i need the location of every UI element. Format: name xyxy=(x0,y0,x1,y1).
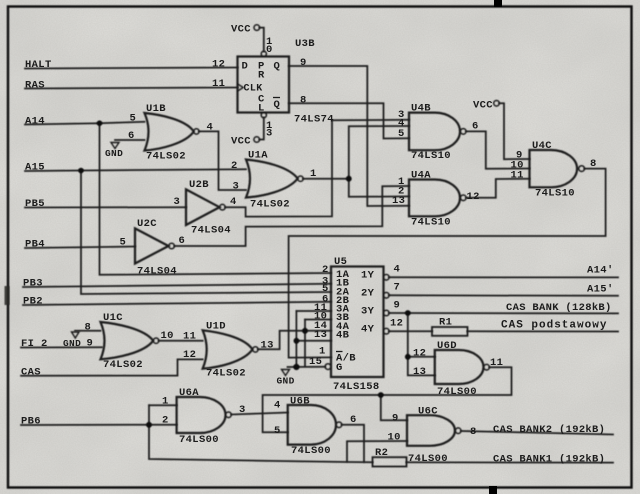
svg-text:CAS: CAS xyxy=(21,367,41,379)
svg-text:U4C: U4C xyxy=(532,140,552,152)
wire A14 to U1B pin 5 xyxy=(25,122,145,125)
wire PB3 to U5 1B xyxy=(23,284,331,287)
NOR gate U1C body xyxy=(101,322,154,359)
svg-text:74LS10: 74LS10 xyxy=(411,150,451,162)
svg-text:3: 3 xyxy=(266,128,273,140)
junction return rail to U6C pin 9 xyxy=(378,392,384,398)
svg-text:74LS04: 74LS04 xyxy=(137,266,177,278)
wire A14 branch to U5 1A xyxy=(100,123,332,275)
svg-text:74LS00: 74LS00 xyxy=(179,434,219,446)
wire U4A out to U4C pin 11 xyxy=(466,179,529,198)
svg-text:3Y: 3Y xyxy=(361,305,375,317)
junction U5 4B tie node xyxy=(294,338,300,344)
svg-text:GND: GND xyxy=(63,338,81,349)
wire PB5 to U2B pin 3 xyxy=(25,206,186,208)
registration tick top xyxy=(494,0,502,7)
svg-text:5: 5 xyxy=(120,237,127,249)
svg-text:11: 11 xyxy=(511,170,524,182)
svg-text:U1B: U1B xyxy=(146,103,166,115)
junction U5 4A node xyxy=(302,328,308,334)
svg-text:CAS BANK1 (192kB): CAS BANK1 (192kB) xyxy=(493,454,605,466)
svg-text:L: L xyxy=(258,103,265,115)
flip-flop U3B 74LS74 box xyxy=(238,57,290,113)
wire U6C out to CAS BANK2 xyxy=(461,431,613,435)
svg-text:12: 12 xyxy=(212,59,225,71)
wire VCC to U3B preset pin 10 xyxy=(260,28,264,52)
svg-text:12: 12 xyxy=(390,318,403,330)
wire U5 3B down tie xyxy=(304,320,306,367)
junction U1A output node xyxy=(346,176,352,182)
svg-text:4: 4 xyxy=(207,122,214,134)
svg-text:U6D: U6D xyxy=(437,340,457,352)
VCC circle U4 xyxy=(494,101,500,107)
svg-text:U4B: U4B xyxy=(411,103,431,115)
svg-text:13: 13 xyxy=(314,329,327,341)
svg-text:6: 6 xyxy=(350,414,357,426)
wire U3B Qbar pin 8 to U4B pin 5 xyxy=(289,103,409,138)
wire U5 G pin 15 ground rail xyxy=(288,366,326,368)
svg-text:2Y: 2Y xyxy=(361,288,375,300)
U4C output bubble xyxy=(579,166,585,172)
svg-text:U6B: U6B xyxy=(290,396,310,408)
U1A output bubble xyxy=(298,176,303,181)
svg-text:74LS10: 74LS10 xyxy=(411,217,451,229)
svg-text:74LS00: 74LS00 xyxy=(437,386,477,398)
svg-text:A14': A14' xyxy=(587,265,614,277)
U5 G enable bubble pin 15 xyxy=(325,364,331,370)
svg-text:U1D: U1D xyxy=(206,321,226,333)
svg-text:PB3: PB3 xyxy=(23,278,43,290)
wire U1B pin 6 ground stub xyxy=(115,139,145,141)
svg-text:74LS10: 74LS10 xyxy=(535,188,575,200)
svg-text:D: D xyxy=(242,61,249,73)
junction 3Y node xyxy=(405,310,411,316)
U4A output bubble xyxy=(461,195,467,201)
svg-text:PB6: PB6 xyxy=(21,416,41,428)
inverter U2B triangle xyxy=(186,189,220,225)
U5 4Y bubble xyxy=(384,328,390,334)
svg-text:CAS podstawowy: CAS podstawowy xyxy=(501,320,607,332)
svg-text:0: 0 xyxy=(266,44,273,56)
NOR gate U1A body xyxy=(246,160,298,198)
junction U6D pin 12 node xyxy=(405,354,411,360)
svg-text:GND: GND xyxy=(277,376,295,387)
multiplexer U5 74LS158 box xyxy=(331,267,384,378)
svg-text:G: G xyxy=(336,362,343,374)
svg-text:2: 2 xyxy=(231,160,238,172)
svg-text:U4A: U4A xyxy=(411,170,431,182)
svg-text:3: 3 xyxy=(239,404,246,416)
wire U5 4B pin 13 from node xyxy=(296,340,331,342)
svg-text:12: 12 xyxy=(467,191,480,203)
svg-text:6: 6 xyxy=(472,121,479,133)
NAND gate U6C body xyxy=(407,415,455,446)
wire PB6 to U6A pin 2 xyxy=(21,424,177,426)
svg-text:R: R xyxy=(258,70,265,82)
scan smudge on left border xyxy=(5,286,10,305)
wire U4C out 8 feedback to U5 A/B select xyxy=(289,169,606,358)
svg-text:4Y: 4Y xyxy=(361,324,375,336)
svg-text:74LS74: 74LS74 xyxy=(294,114,334,126)
svg-text:GND: GND xyxy=(105,148,123,159)
svg-text:PB5: PB5 xyxy=(25,198,45,210)
svg-text:8: 8 xyxy=(85,322,92,334)
U6D output bubble xyxy=(484,364,490,370)
svg-text:11: 11 xyxy=(490,357,503,369)
NAND gate U4A body xyxy=(409,180,460,217)
svg-text:R2: R2 xyxy=(375,447,388,459)
svg-text:CAS BANK2 (192kB): CAS BANK2 (192kB) xyxy=(493,424,605,436)
svg-text:R1: R1 xyxy=(439,317,452,329)
svg-text:FI 2: FI 2 xyxy=(21,338,48,350)
wire U1C pin 8 ground stub xyxy=(75,330,101,332)
wire U3B clear pin 13 to VCC xyxy=(260,118,264,140)
U6C output bubble xyxy=(455,428,461,434)
U4B output bubble xyxy=(461,129,467,135)
svg-text:CAS BANK (128kB): CAS BANK (128kB) xyxy=(506,302,612,314)
svg-text:6: 6 xyxy=(128,130,135,142)
svg-text:74LS02: 74LS02 xyxy=(146,151,186,163)
U2C output bubble xyxy=(169,243,175,249)
wire U6A out to U6B pin 4 xyxy=(231,413,287,415)
resistor R1 box xyxy=(432,327,468,336)
svg-text:3: 3 xyxy=(174,196,181,208)
wire U5 4Y to R1 xyxy=(389,330,432,332)
svg-text:4B: 4B xyxy=(336,329,350,341)
U6A output bubble xyxy=(226,412,232,418)
svg-text:1Y: 1Y xyxy=(361,270,375,282)
wire U1A out to U4A pin 2 xyxy=(349,179,409,197)
wire U5 3A down tie to ground rail xyxy=(295,311,297,367)
svg-text:15: 15 xyxy=(309,356,322,368)
wire PB4 to U2C pin 5 xyxy=(25,247,135,249)
svg-text:74LS02: 74LS02 xyxy=(206,368,246,380)
svg-text:3: 3 xyxy=(233,181,240,193)
svg-text:A15: A15 xyxy=(25,162,45,174)
wire U5 3Y to CAS BANK 128kB xyxy=(389,312,618,314)
svg-text:RAS: RAS xyxy=(25,80,45,92)
junction ground rail node xyxy=(293,364,299,370)
wire U1A out to U4B pin 4 xyxy=(349,126,409,179)
VCC circle top xyxy=(254,25,260,31)
wire U6B out to rail xyxy=(342,425,364,462)
svg-text:HALT: HALT xyxy=(25,59,52,71)
svg-text:8: 8 xyxy=(470,426,477,438)
svg-text:4: 4 xyxy=(274,400,281,412)
svg-text:1: 1 xyxy=(162,396,169,408)
ground symbol at U1C pin 8 xyxy=(72,332,80,338)
registration tick bottom xyxy=(489,486,497,494)
U3B clock input triangle xyxy=(238,84,244,91)
wire U2C out to U4A pin 1 xyxy=(175,186,410,246)
svg-text:U1C: U1C xyxy=(103,312,123,324)
wire U1C out to U1D pin 11 xyxy=(159,340,203,342)
svg-text:13: 13 xyxy=(261,340,274,352)
wire R2 to CAS BANK1 xyxy=(407,461,614,463)
svg-text:U5: U5 xyxy=(334,256,347,268)
U6B output bubble xyxy=(336,422,342,428)
svg-text:8: 8 xyxy=(590,158,597,170)
svg-text:U2B: U2B xyxy=(189,179,209,191)
svg-text:Q: Q xyxy=(274,99,281,111)
wire FI2 to U1C pin 9 xyxy=(21,346,102,348)
junction A14 branch xyxy=(97,120,103,126)
junction PB6 node xyxy=(146,422,152,428)
svg-text:Q: Q xyxy=(274,61,281,73)
svg-text:9: 9 xyxy=(300,57,307,69)
svg-text:10: 10 xyxy=(388,432,401,444)
svg-text:PB2: PB2 xyxy=(23,296,43,308)
wire U3B Q pin 9 to U4A pin 13 xyxy=(289,66,409,206)
svg-text:VCC: VCC xyxy=(473,100,493,112)
wire CAS to U1D pin 12 xyxy=(21,359,203,375)
wire return rail to U6C pin 9 xyxy=(381,395,407,420)
svg-text:11: 11 xyxy=(183,331,196,343)
svg-text:A14: A14 xyxy=(25,116,45,128)
svg-text:U3B: U3B xyxy=(295,38,315,50)
NAND gate U6B body xyxy=(288,405,336,445)
wire U5 2Y to A15' xyxy=(389,294,618,297)
wire rail to U6C pin 10 xyxy=(347,441,407,462)
U1B output bubble xyxy=(194,129,199,134)
svg-text:13: 13 xyxy=(413,366,426,378)
svg-text:74LS02: 74LS02 xyxy=(103,359,143,371)
wire U6A pin 1 tie xyxy=(149,404,177,406)
U1C output bubble xyxy=(153,338,158,343)
svg-text:6: 6 xyxy=(179,235,186,247)
svg-text:7: 7 xyxy=(394,282,401,294)
NOR gate U1B body xyxy=(145,113,194,151)
svg-text:12: 12 xyxy=(413,348,426,360)
NAND gate U6A body xyxy=(177,397,226,433)
U5 3Y bubble xyxy=(384,310,390,316)
svg-text:U6C: U6C xyxy=(418,406,438,418)
U2B output bubble xyxy=(220,204,226,210)
svg-text:VCC: VCC xyxy=(231,24,251,36)
U3B clear bubble pin 13 xyxy=(261,113,266,118)
wire U5 3B tie xyxy=(305,319,331,321)
svg-text:12: 12 xyxy=(183,349,196,361)
svg-text:74LS04: 74LS04 xyxy=(191,225,231,237)
ground symbol at U5 G rail xyxy=(282,370,290,376)
svg-text:5: 5 xyxy=(274,425,281,437)
svg-text:PB4: PB4 xyxy=(25,239,45,251)
U5 2Y bubble xyxy=(384,293,390,299)
svg-text:74LS158: 74LS158 xyxy=(333,381,380,393)
wire VCC to U4C pin 9 xyxy=(499,103,529,159)
wire U5 1Y to A14' xyxy=(389,276,618,278)
svg-text:5: 5 xyxy=(398,128,405,140)
U5 1Y bubble xyxy=(384,275,390,281)
NAND gate U4C body xyxy=(530,150,578,187)
svg-text:9: 9 xyxy=(87,338,94,350)
svg-text:VCC: VCC xyxy=(231,136,251,148)
wire U1D out to U5 4A pin 14 xyxy=(258,331,331,350)
NAND gate U6D body xyxy=(435,350,484,384)
wire PB6 branch to R2 rail xyxy=(149,425,373,463)
NOR gate U1D body xyxy=(203,330,253,368)
svg-text:4: 4 xyxy=(394,264,401,276)
wire U2B out to U4B pin 3 xyxy=(225,120,409,217)
svg-text:U2C: U2C xyxy=(137,218,157,230)
wire U4B out to U4C pin 10 xyxy=(466,131,529,168)
svg-text:8: 8 xyxy=(300,95,307,107)
ground symbol at U1B pin 6 xyxy=(111,143,119,149)
VCC circle bottom xyxy=(254,137,260,143)
resistor R2 box xyxy=(373,457,407,466)
svg-text:9: 9 xyxy=(394,300,401,312)
svg-text:11: 11 xyxy=(212,78,225,90)
U5 A overbar xyxy=(336,351,343,353)
svg-text:5: 5 xyxy=(130,113,137,125)
NAND gate U4B body xyxy=(409,113,460,151)
wire 3Y branch to U6D pins 12 13 xyxy=(408,313,435,357)
wire A15 to U1A pin 2 xyxy=(25,169,246,171)
svg-text:1: 1 xyxy=(310,168,317,180)
svg-text:9: 9 xyxy=(392,413,399,425)
svg-text:13: 13 xyxy=(392,195,405,207)
svg-text:10: 10 xyxy=(161,330,174,342)
wire U1A out node xyxy=(303,178,349,180)
svg-text:U6A: U6A xyxy=(179,387,199,399)
wire PB2 to U5 2B xyxy=(23,302,331,305)
svg-text:2: 2 xyxy=(162,415,169,427)
wire A15 branch to U5 2A xyxy=(81,171,331,295)
svg-text:74LS00: 74LS00 xyxy=(408,453,448,465)
U3B preset bubble pin 10 xyxy=(261,51,266,56)
wire R1 to CAS podstawowy xyxy=(468,330,619,332)
junction A15 branch xyxy=(78,168,84,174)
wire U1B out to U1A pin 3 xyxy=(199,131,246,190)
svg-text:4: 4 xyxy=(230,196,237,208)
U1D output bubble xyxy=(253,347,258,352)
wire U5 3A tie xyxy=(296,310,331,312)
svg-text:A15': A15' xyxy=(587,284,614,296)
wire U6D out pin 11 return rail xyxy=(263,367,512,432)
svg-text:2: 2 xyxy=(322,264,329,276)
svg-text:74LS02: 74LS02 xyxy=(250,199,290,211)
inverter U2C triangle xyxy=(135,228,169,263)
svg-text:U1A: U1A xyxy=(248,150,268,162)
svg-text:74LS00: 74LS00 xyxy=(291,445,331,457)
wire RAS to U3B pin 11 xyxy=(25,88,238,89)
wire HALT to U3B pin 12 xyxy=(25,68,238,69)
